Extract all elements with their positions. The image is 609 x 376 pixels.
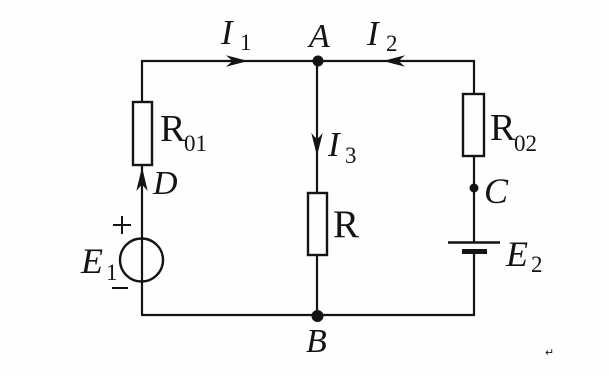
svg-text:B: B <box>306 323 327 360</box>
svg-text:2: 2 <box>386 31 398 56</box>
label R01 <box>160 108 207 156</box>
current arrow I2 (leftward on top wire) <box>383 55 405 67</box>
wire top-left (corner to node A) <box>142 61 318 102</box>
resistor R01 <box>133 102 152 165</box>
label B <box>306 323 327 360</box>
wire middle lower (R bottom to node B) <box>316 255 318 316</box>
svg-text:D: D <box>152 165 178 202</box>
wire top-right (node A to right corner) <box>318 61 474 94</box>
svg-text:R: R <box>160 108 186 150</box>
svg-text:R: R <box>490 107 516 149</box>
node C junction dot <box>470 184 479 193</box>
label C <box>484 171 509 211</box>
label E2 <box>505 234 543 277</box>
svg-text:A: A <box>307 18 330 55</box>
node A junction dot <box>313 56 324 67</box>
wire bottom (bottom-left corner to bottom-right corner) <box>141 314 475 316</box>
svg-text:I: I <box>220 13 235 52</box>
label I1 <box>220 13 252 55</box>
wire right upper (R02 bottom through node C to battery E2) <box>473 156 475 242</box>
label R02 <box>490 107 537 156</box>
svg-text:2: 2 <box>531 252 543 277</box>
svg-text:01: 01 <box>184 131 207 156</box>
label D <box>152 165 178 202</box>
node B junction dot <box>312 310 324 322</box>
svg-text:E: E <box>505 234 528 274</box>
battery E2 long plate <box>448 241 500 244</box>
wire left vertical (R01 bottom through E1 to bottom-left corner) <box>141 165 143 314</box>
current arrow I3 (downward on middle wire) <box>311 133 322 156</box>
label R <box>333 203 359 246</box>
svg-text:↵: ↵ <box>545 347 554 359</box>
svg-text:02: 02 <box>514 131 537 156</box>
wire right lower (battery E2 to bottom wire) <box>473 251 475 316</box>
svg-text:C: C <box>484 171 509 211</box>
svg-text:3: 3 <box>345 143 357 168</box>
label E1 <box>80 241 118 285</box>
current arrow I1 (rightward on top wire) <box>226 55 248 67</box>
svg-text:E: E <box>80 241 103 281</box>
svg-text:R: R <box>333 203 359 246</box>
label I2 <box>366 14 398 56</box>
resistor R <box>308 193 327 255</box>
svg-text:1: 1 <box>106 260 118 285</box>
resistor R02 <box>463 94 484 156</box>
E1 minus sign <box>112 287 128 289</box>
stray scan mark <box>545 347 554 359</box>
battery E2 short thick plate <box>462 249 487 254</box>
svg-text:I: I <box>366 14 381 53</box>
current arrow at D (upward on left wire) <box>136 167 147 191</box>
label A <box>307 18 330 55</box>
E1 plus sign <box>113 216 131 234</box>
voltage source E1 <box>120 239 163 282</box>
svg-text:1: 1 <box>240 30 252 55</box>
svg-text:I: I <box>327 125 342 164</box>
label I3 <box>327 125 357 168</box>
wire middle upper (node A to R top) <box>316 61 318 194</box>
